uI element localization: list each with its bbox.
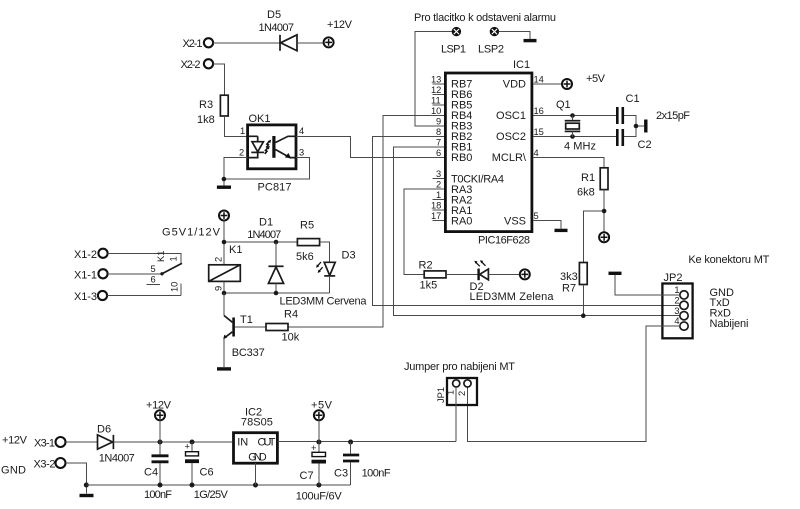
resistor R1 6k8: [577, 168, 608, 199]
connector JP2: [662, 272, 692, 338]
capacitor C6 1G/25V electrolytic: [185, 442, 229, 502]
svg-text:1: 1: [446, 390, 456, 395]
svg-text:5: 5: [151, 264, 156, 274]
junction: [190, 440, 195, 445]
svg-text:6: 6: [436, 148, 441, 158]
wire MCLR to R1: [533, 158, 604, 168]
svg-text:6k8: 6k8: [577, 187, 595, 199]
junction: [222, 240, 227, 245]
wire K1 to bottom rail: [223, 281, 225, 293]
wire T1 base to R4: [235, 326, 266, 328]
OK1 light arrows: [265, 140, 271, 154]
svg-text:3: 3: [436, 169, 441, 179]
pin 17 stub: [431, 211, 444, 221]
pad LSP1: [441, 27, 466, 55]
svg-text:18: 18: [431, 201, 441, 211]
pin 18 stub: [431, 201, 444, 211]
pad LSP2: [478, 27, 504, 55]
svg-text:X1-2: X1-2: [74, 249, 97, 261]
svg-text:VSS: VSS: [504, 216, 526, 228]
svg-text:R1: R1: [581, 172, 595, 184]
svg-text:2: 2: [239, 148, 244, 158]
pin 1 (JP1): [446, 380, 460, 395]
LED D3: [316, 250, 356, 294]
svg-text:Nabijeni: Nabijeni: [710, 318, 749, 330]
svg-text:+5V: +5V: [586, 73, 606, 85]
svg-text:C2: C2: [638, 139, 652, 151]
ground: [609, 272, 622, 275]
junction: [253, 483, 258, 488]
svg-text:GND: GND: [1, 465, 26, 477]
ground: [524, 39, 537, 42]
transistor T1 BC337: [223, 314, 265, 359]
capacitor C4 100nF: [144, 442, 172, 501]
wire D5 to +12V: [297, 42, 324, 44]
junction: [570, 134, 575, 139]
diode D5 1N4007: [259, 9, 298, 51]
wire R7 to RxD line: [582, 285, 584, 316]
svg-text:+5V: +5V: [311, 400, 333, 412]
pin 4 (JP2): [674, 316, 688, 330]
svg-text:X2-2: X2-2: [181, 59, 201, 71]
wire JP2 pin1 to ground: [615, 275, 680, 295]
wire +12V to K1/D1/R5: [224, 221, 297, 265]
wire OK1 pin2 to ground: [224, 158, 248, 186]
svg-text:1k5: 1k5: [420, 280, 438, 292]
svg-text:Jumper pro nabijeni MT: Jumper pro nabijeni MT: [404, 361, 515, 373]
wire OK1 pin4 to IC1 RB0: [296, 136, 444, 157]
pin labels right: [492, 79, 527, 228]
wire IC2 GND to rail: [255, 463, 257, 485]
svg-text:9: 9: [436, 117, 441, 127]
svg-text:JP1: JP1: [436, 387, 446, 403]
svg-text:5: 5: [534, 211, 539, 221]
ground: [80, 494, 94, 497]
junction: [570, 113, 575, 118]
svg-text:OSC2: OSC2: [496, 131, 526, 143]
svg-text:14: 14: [534, 75, 544, 85]
junction: [274, 291, 279, 296]
svg-text:100uF/6V: 100uF/6V: [296, 491, 343, 503]
relay coil K1: [209, 244, 243, 281]
svg-text:12: 12: [431, 85, 441, 95]
svg-text:C3: C3: [334, 468, 348, 480]
svg-text:16: 16: [534, 106, 544, 116]
pin 3 (JP2): [674, 306, 688, 320]
LED D2: [470, 260, 489, 293]
svg-text:T1: T1: [240, 314, 253, 326]
svg-text:JP2: JP2: [664, 272, 683, 284]
svg-text:OK1: OK1: [249, 113, 271, 125]
svg-text:BC337: BC337: [232, 347, 265, 359]
svg-text:1: 1: [674, 285, 679, 295]
svg-text:1G/25V: 1G/25V: [194, 489, 229, 501]
regulator IC2 78S05: [234, 407, 278, 464]
wire R3 to OK1 pin1: [224, 116, 246, 136]
junction: [274, 240, 279, 245]
svg-text:C7: C7: [300, 470, 314, 482]
svg-text:RB0: RB0: [451, 152, 472, 164]
+12V supply symbol: [324, 19, 353, 47]
svg-text:1N4007: 1N4007: [247, 229, 281, 241]
svg-text:1k8: 1k8: [197, 114, 215, 126]
connector JP1: [436, 378, 477, 405]
op-amp? no: optocoupler OK1 PC817: [248, 113, 296, 194]
node X1-2: [74, 249, 108, 261]
svg-text:+: +: [311, 443, 316, 453]
junction: [316, 483, 321, 488]
wire X1-2 to contact: [108, 253, 181, 263]
wire R5 to D3: [320, 242, 330, 262]
pin labels left: [451, 79, 504, 228]
ground: [555, 229, 568, 232]
ground: [217, 367, 231, 370]
svg-text:2: 2: [214, 257, 224, 262]
wire bottom rail K1/D1/D3: [224, 292, 330, 294]
svg-text:78S05: 78S05: [241, 417, 273, 429]
svg-text:LED3MM Zelena: LED3MM Zelena: [470, 291, 555, 303]
svg-text:2: 2: [674, 295, 679, 305]
OK1 phototransistor: [274, 136, 296, 159]
svg-text:IC1: IC1: [513, 59, 530, 71]
wire OSC1 to C1: [533, 115, 617, 117]
svg-text:LSP2: LSP2: [478, 44, 504, 56]
junction: [634, 124, 639, 129]
svg-text:LED3MM Cervena: LED3MM Cervena: [280, 296, 368, 308]
svg-text:Q1: Q1: [556, 99, 571, 111]
wire RB1 to JP2 RxD: [394, 147, 680, 316]
resistor R2 1k5: [419, 260, 447, 292]
svg-text:13: 13: [431, 75, 441, 85]
capacitor C3 100nF: [334, 442, 391, 485]
svg-text:C6: C6: [200, 467, 214, 479]
wire X2-1 to D5: [213, 42, 280, 44]
svg-text:R4: R4: [284, 309, 298, 321]
crystal Q1 4MHz: [556, 99, 596, 153]
svg-text:100nF: 100nF: [362, 468, 391, 480]
pin 11 stub: [431, 96, 444, 106]
svg-text:11: 11: [431, 96, 441, 106]
svg-text:10: 10: [170, 282, 180, 292]
wire LSP1 to IC1 RB3: [415, 32, 453, 126]
wire VDD to +5V: [533, 83, 562, 85]
junction: [222, 291, 227, 296]
node X3-1: [34, 437, 66, 450]
OK1 internal LED: [248, 136, 265, 157]
wire IC2 OUT +5V rail: [277, 441, 456, 443]
svg-text:17: 17: [431, 211, 441, 221]
resistor R4 10k: [266, 309, 300, 344]
svg-text:+: +: [185, 442, 190, 452]
pin 2 (JP2): [674, 295, 688, 309]
svg-text:PIC16F628: PIC16F628: [478, 235, 530, 247]
wire R1 to +5V and R7: [583, 190, 604, 263]
svg-text:X3-2: X3-2: [34, 459, 56, 471]
svg-text:C4: C4: [144, 467, 158, 479]
svg-text:10k: 10k: [282, 332, 300, 344]
svg-text:LSP1: LSP1: [441, 44, 466, 56]
svg-text:9: 9: [214, 286, 224, 291]
resistor R3 1k8: [197, 95, 228, 126]
svg-text:GND: GND: [248, 452, 267, 464]
svg-text:R7: R7: [562, 283, 576, 295]
relay contact K1: [147, 251, 183, 296]
svg-text:3k3: 3k3: [560, 271, 578, 283]
svg-text:X2-1: X2-1: [183, 38, 203, 50]
svg-text:R3: R3: [199, 99, 213, 111]
wire X3-2 to ground rail: [66, 463, 87, 494]
pin 13 stub: [431, 75, 444, 85]
wire K1 to T1 collector: [223, 293, 225, 316]
svg-text:4: 4: [674, 316, 679, 326]
svg-text:4: 4: [299, 126, 304, 136]
svg-text:2x15pF: 2x15pF: [656, 110, 690, 122]
svg-text:100nF: 100nF: [144, 489, 172, 501]
svg-text:3: 3: [299, 148, 304, 158]
svg-text:D6: D6: [97, 424, 111, 436]
svg-text:Pro tlacitko k odstaveni alarm: Pro tlacitko k odstaveni alarmu: [414, 12, 556, 24]
wire X3-1 to D6: [66, 441, 98, 443]
svg-text:RA0: RA0: [451, 216, 472, 228]
svg-text:3: 3: [674, 306, 679, 316]
ground: [217, 185, 231, 188]
svg-text:1N4007: 1N4007: [99, 453, 135, 465]
svg-text:PC817: PC817: [258, 182, 292, 194]
svg-text:+12V: +12V: [2, 435, 28, 447]
diode D6 1N4007: [97, 424, 135, 465]
pin 2 (JP1): [457, 380, 471, 396]
wire X1-3 to contact pin10: [107, 295, 181, 297]
svg-text:15: 15: [534, 127, 544, 137]
svg-text:1: 1: [240, 126, 245, 136]
junction: [158, 440, 163, 445]
svg-text:+12V: +12V: [327, 19, 353, 31]
pin 1 (JP2): [674, 285, 688, 299]
svg-text:2: 2: [457, 391, 467, 396]
wire X2-2 to R3: [213, 64, 224, 95]
svg-text:IN: IN: [237, 437, 248, 449]
pin 12 stub: [431, 85, 444, 95]
svg-text:4: 4: [534, 148, 539, 158]
svg-text:D1: D1: [259, 217, 273, 229]
wire JP1 pin1 to +5V rail: [455, 387, 457, 442]
node X1-1: [74, 269, 108, 281]
svg-text:R2: R2: [419, 260, 433, 272]
svg-text:5k6: 5k6: [296, 251, 314, 263]
+5V supply symbol: [562, 73, 606, 89]
svg-text:1: 1: [169, 256, 179, 261]
+5V supply symbol (D2): [520, 269, 530, 279]
diode D1 1N4007: [247, 217, 283, 294]
wire RB4 to R4 (T1 base): [288, 116, 444, 328]
svg-text:G5V1/12V: G5V1/12V: [162, 227, 221, 239]
svg-text:MCLR\: MCLR\: [492, 152, 527, 164]
wire C1/C2 to ground: [624, 116, 644, 137]
junction: [581, 313, 586, 318]
+12V supply symbol (relay): [219, 211, 229, 221]
resistor R5 5k6: [296, 220, 320, 264]
wire JP2 pin4 to JP1 pin2: [468, 326, 681, 442]
svg-text:R5: R5: [300, 220, 314, 232]
wire X1-1 to contact pivot: [108, 273, 162, 275]
+5V supply symbol (below R1): [599, 232, 609, 242]
capacitor C7 100uF/6V electrolytic: [296, 442, 343, 503]
node X3-2: [34, 458, 66, 471]
svg-text:K1: K1: [229, 244, 242, 256]
junction: [316, 440, 321, 445]
svg-text:D3: D3: [342, 250, 356, 262]
svg-text:Ke konektoru MT: Ke konektoru MT: [688, 254, 769, 266]
wire D6 to IC2 IN (+12V rail): [113, 441, 232, 443]
svg-text:4 MHz: 4 MHz: [564, 141, 596, 153]
capacitor C1: [617, 93, 639, 124]
svg-text:10: 10: [431, 106, 441, 116]
wire RA3 to R2: [404, 189, 444, 274]
wire VSS to ground: [533, 221, 561, 229]
wire OK1 pin3 loop to ground: [224, 158, 310, 179]
svg-text:K1: K1: [156, 251, 166, 262]
svg-text:D5: D5: [267, 9, 281, 21]
capacitor C2: [617, 129, 651, 151]
svg-text:1: 1: [436, 190, 441, 200]
node X2-2: [181, 59, 214, 71]
junction: [348, 440, 353, 445]
svg-text:6: 6: [151, 275, 156, 285]
svg-text:1N4007: 1N4007: [259, 22, 295, 34]
node X2-1: [183, 38, 214, 50]
wire ground rail: [86, 484, 350, 486]
pin 3 stub: [433, 169, 445, 179]
svg-text:C1: C1: [626, 93, 640, 105]
IC U1 PIC16F628: [445, 59, 532, 247]
+5V supply symbol (bottom): [311, 400, 333, 443]
wire OSC2 to C2: [533, 136, 617, 138]
junction: [158, 483, 163, 488]
wire R2 to D2: [446, 273, 478, 275]
wire D2 to +5V: [488, 273, 520, 275]
junction: [84, 483, 89, 488]
+12V supply symbol (bottom): [146, 400, 172, 443]
svg-text:7: 7: [436, 138, 441, 148]
junction: [602, 209, 607, 214]
svg-text:X1-1: X1-1: [74, 270, 97, 282]
svg-text:VDD: VDD: [503, 79, 526, 91]
svg-text:OSC1: OSC1: [496, 110, 526, 122]
svg-text:8: 8: [436, 127, 441, 137]
junction: [222, 177, 227, 182]
svg-text:X3-1: X3-1: [34, 438, 55, 450]
wire LSP2 to ground: [498, 32, 530, 39]
ground: [644, 120, 647, 133]
node X1-3: [74, 291, 107, 303]
wire T1 emitter to ground: [223, 338, 225, 367]
svg-text:X1-3: X1-3: [74, 291, 97, 303]
resistor R7 3k3: [560, 263, 587, 295]
pin 1 stub: [433, 190, 445, 200]
svg-text:OUT: OUT: [258, 437, 276, 449]
junction: [190, 483, 195, 488]
svg-text:2: 2: [436, 180, 441, 190]
wire RB2 to JP2 TxD: [372, 137, 680, 306]
